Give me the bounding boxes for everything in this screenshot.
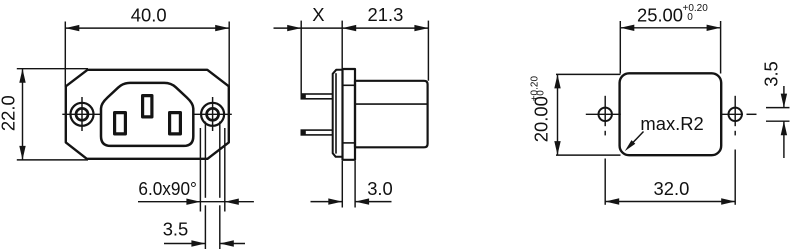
ext line 32.0 left	[604, 159, 606, 205]
panel hole right	[729, 108, 742, 121]
arrowhead 21.3 right	[414, 25, 428, 31]
dimension 3.5 (hole dia)	[164, 243, 245, 245]
dimension line 20.00	[557, 74, 559, 155]
svg-text:3.0: 3.0	[367, 178, 393, 199]
pin right	[170, 113, 181, 134]
arrowhead X outside left	[287, 25, 301, 31]
svg-text:0: 0	[687, 12, 693, 23]
ext line bore left upper	[204, 122, 206, 198]
extension lines for 6.0x90 chamfer	[138, 122, 254, 250]
dimension line 25.00	[620, 27, 720, 29]
svg-text:32.0: 32.0	[654, 178, 690, 199]
arrowhead 22.0 top	[19, 69, 25, 83]
svg-text:6.0x90°: 6.0x90°	[138, 178, 197, 199]
ext line flange front	[341, 21, 343, 69]
dimension line 3.5 upper tail	[783, 86, 785, 108]
arrowhead 3.5 down	[781, 94, 787, 108]
ext line 32.0 right	[734, 150, 736, 205]
arrowhead 32.0 right	[721, 198, 735, 204]
svg-text:20.00: 20.00	[531, 96, 552, 142]
dimension 3.0	[311, 161, 392, 208]
svg-text:3.5: 3.5	[163, 218, 189, 239]
dimension 40.0	[65, 22, 229, 87]
arrowhead 21.3 left	[342, 25, 356, 31]
dimension 20.00	[556, 74, 621, 155]
arrowhead 20.00 bottom	[554, 141, 560, 155]
ext line 3.0 right	[354, 161, 356, 208]
centerline panel hole left vertical dash	[604, 131, 606, 136]
svg-text:X: X	[312, 4, 324, 25]
ext line 20.00 top	[556, 73, 621, 75]
solder pin lower	[301, 130, 332, 135]
flange bezel side (block A)	[333, 70, 343, 157]
solder pin upper	[301, 94, 332, 99]
dimension 25.00	[620, 21, 720, 74]
ext line 3.5 bottom	[766, 120, 790, 122]
dimension line 3.5 lower tail	[783, 121, 785, 158]
dimension line 22.0	[22, 69, 24, 160]
socket recess outline	[101, 83, 193, 146]
svg-text:25.00: 25.00	[637, 5, 683, 26]
dimension line 3.5 right tail	[220, 243, 245, 245]
centerline left hole horizontal	[62, 113, 100, 115]
bezel bevel edge line	[335, 73, 337, 153]
dimension line 40.0	[65, 27, 229, 29]
svg-text:3.5: 3.5	[760, 61, 781, 87]
flange plate recess line bottom	[343, 142, 356, 144]
panel hole left	[599, 108, 612, 121]
arrowhead 25.00 right	[707, 25, 721, 31]
dimensions X and 21.3	[274, 21, 429, 94]
flange outline octagon	[66, 70, 229, 159]
mounting hole left: bore circle	[76, 108, 88, 120]
centerline panel hole right vertical dash	[734, 131, 736, 136]
ext line 3.0 left	[341, 161, 343, 208]
centerline left hole vertical	[81, 97, 83, 131]
arrowhead 20.00 top	[554, 74, 560, 88]
arrowhead 3.5 left	[191, 240, 205, 246]
dimension 3.5 panel hole	[766, 86, 790, 158]
panel cutout rounded rectangle	[620, 73, 722, 155]
arrowhead 3.0 left	[328, 198, 342, 204]
arrowhead 3.5 right	[220, 240, 234, 246]
extension line left of 40.0	[64, 22, 66, 87]
mounting hole left: countersink circle	[71, 103, 94, 126]
dimension line 6.0x90	[138, 201, 254, 203]
svg-text:+0.20: +0.20	[530, 76, 541, 102]
arrowhead 32.0 left	[605, 198, 619, 204]
flange plate recess line top	[343, 84, 356, 86]
extension line bottom of 22.0	[17, 159, 88, 161]
ext line bore right lower	[219, 205, 221, 249]
flange plate side (block B)	[343, 69, 356, 160]
centerline panel hole left vertical	[604, 96, 606, 126]
ext line bore right upper	[219, 122, 221, 198]
arrowhead 6.0x90 right	[225, 199, 239, 205]
svg-text:0: 0	[536, 90, 547, 96]
dimension line 3.0 left tail	[311, 201, 343, 203]
extension line top of 22.0	[17, 68, 88, 70]
dimension 22.0	[17, 69, 88, 160]
dimension line 32.0	[605, 201, 735, 203]
ext line 25.00 right	[720, 21, 722, 74]
svg-text:22.0: 22.0	[0, 95, 19, 131]
svg-text:40.0: 40.0	[131, 5, 167, 26]
centerline right hole horizontal	[194, 113, 232, 115]
centerline panel hole right horizontal dash	[747, 113, 757, 115]
centerline panel hole left horizontal	[586, 113, 621, 115]
leader arrowhead max.R2	[625, 140, 636, 151]
centerline panel hole right vertical	[734, 96, 736, 126]
pin left	[115, 113, 126, 134]
dimension line 3.5 left tail	[164, 243, 205, 245]
ext line bore left lower	[204, 205, 206, 249]
dimension line 3.0 right tail	[355, 201, 391, 203]
arrowhead 40.0 left	[65, 25, 79, 31]
ext line 3.5 top	[766, 107, 790, 109]
svg-text:21.3: 21.3	[368, 4, 404, 25]
arrowhead 6.0x90 left	[186, 199, 200, 205]
ext line body rear	[427, 21, 429, 81]
ext line chamfer left	[199, 128, 201, 212]
mounting hole right: bore circle	[207, 108, 219, 120]
arrowhead 25.00 left	[620, 25, 634, 31]
svg-text:max.R2: max.R2	[640, 113, 703, 134]
extension line right of 40.0	[228, 22, 230, 87]
dimension line X / 21.3	[274, 27, 429, 29]
arrowhead 3.0 right	[355, 198, 369, 204]
leader line max.R2	[629, 132, 644, 147]
pin earth (center)	[143, 96, 152, 117]
centerline right hole vertical	[212, 97, 214, 131]
mounting hole right: countersink circle	[201, 103, 224, 126]
ext line 20.00 bottom	[556, 154, 621, 156]
arrowhead 22.0 bottom	[19, 146, 25, 160]
dimension 32.0	[605, 150, 735, 205]
centerline panel hole right horizontal	[721, 113, 743, 115]
ext line chamfer right	[224, 128, 226, 212]
body parting line	[355, 103, 427, 105]
ext line 25.00 left	[619, 21, 621, 74]
arrowhead 40.0 right	[215, 25, 229, 31]
connector body side	[355, 81, 428, 148]
ext line pin tip	[300, 21, 302, 94]
arrowhead 3.5 up	[781, 121, 787, 135]
